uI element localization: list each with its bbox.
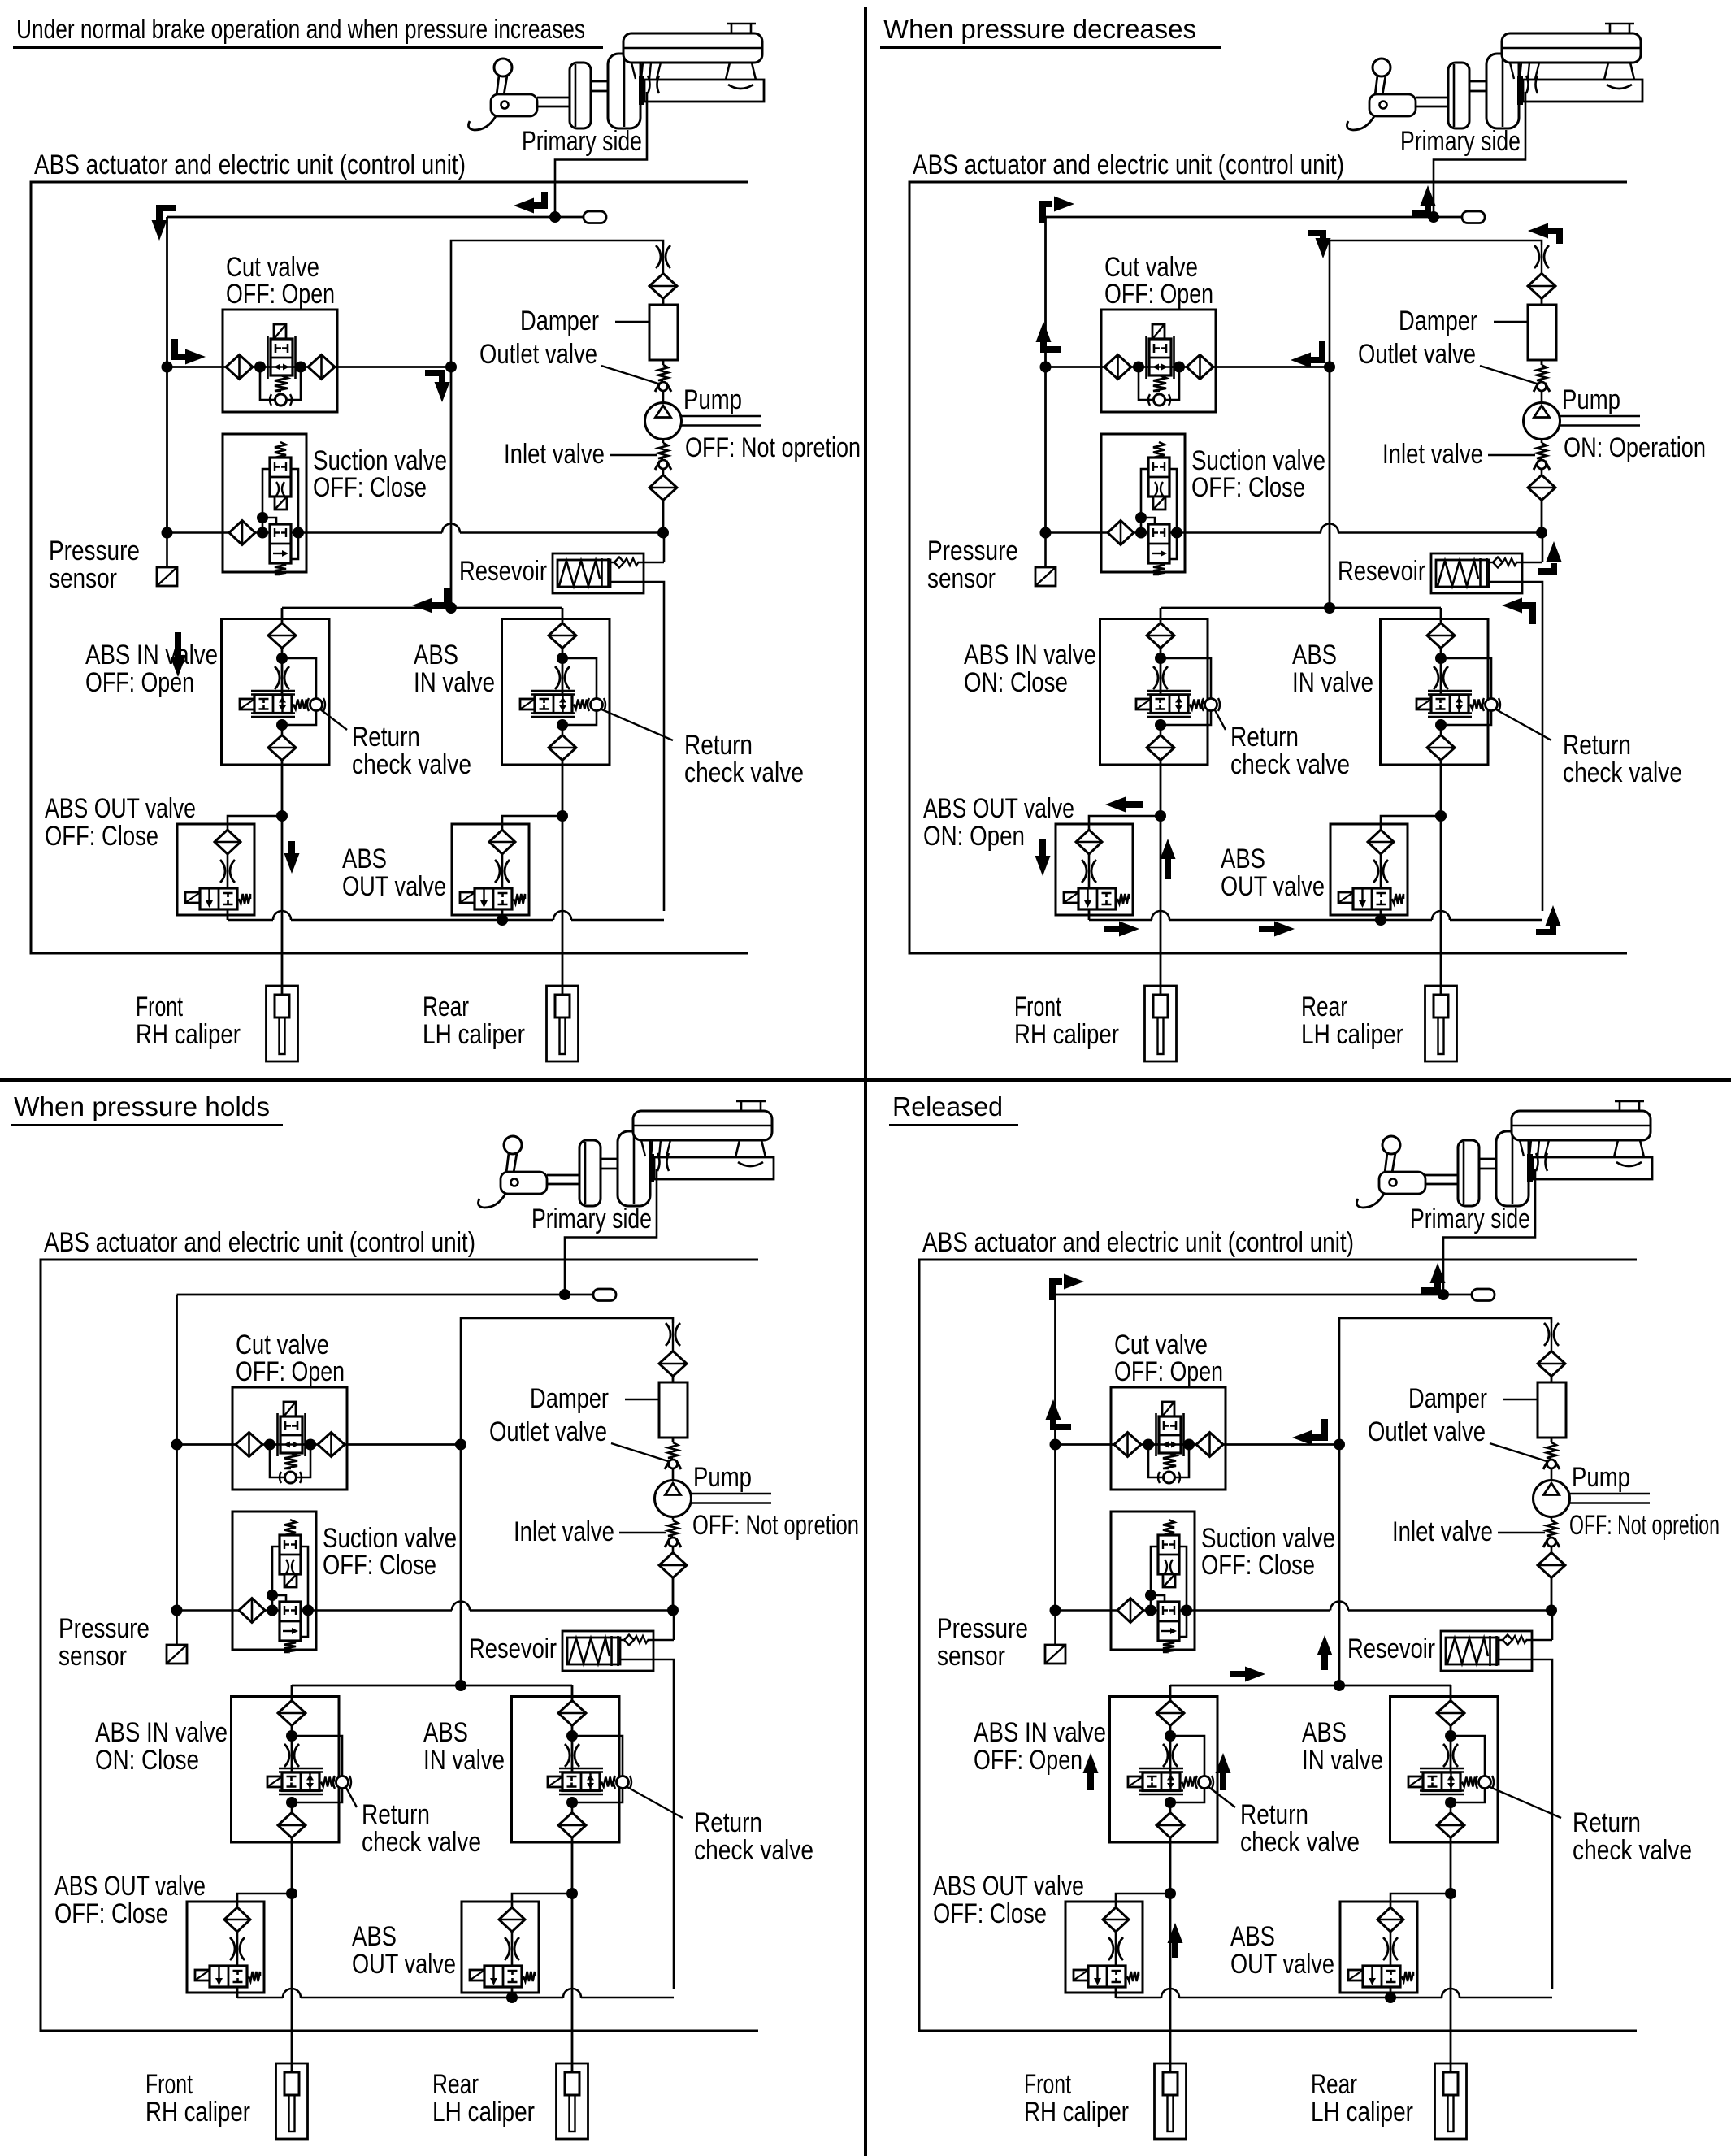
svg-text:Front: Front: [136, 991, 183, 1022]
pump outlet restrictor: [1544, 1323, 1559, 1351]
ABS OUT valve body: [484, 1966, 522, 1987]
svg-text:Rear: Rear: [423, 991, 469, 1022]
cut valve body: [278, 1413, 306, 1456]
svg-text:ON: Close: ON: Close: [964, 667, 1068, 698]
wire: [1551, 1438, 1553, 1442]
bridge: return over rear channel: [1432, 911, 1450, 920]
bridge: suction line over riser: [1321, 524, 1338, 533]
reservoir ports: [631, 63, 661, 79]
wire: ABS OUT inlet: [502, 816, 562, 830]
pump outlet filter: [1538, 1351, 1565, 1377]
brake caliper: [1155, 2063, 1187, 2139]
ABS IN valve restrictor: [1443, 1744, 1458, 1767]
svg-text:Primary side: Primary side: [531, 1204, 652, 1234]
brake pedal: [468, 59, 537, 130]
svg-text:LH caliper: LH caliper: [423, 1019, 525, 1050]
suction valve lower body: [1148, 524, 1169, 563]
flow arrow: up to master cylinder: [1421, 1282, 1438, 1291]
master cylinder body: [1523, 80, 1642, 102]
node: check valve loop bottom tap: [1165, 1797, 1176, 1808]
booster output plate: [639, 76, 644, 105]
cut valve outlet filter: [1196, 1433, 1223, 1457]
node: check valve loop bottom tap: [557, 719, 568, 731]
title: Released: [889, 1091, 1018, 1126]
pressure sensor: [157, 533, 177, 587]
wire: [281, 608, 284, 623]
svg-text:ABS OUT valve: ABS OUT valve: [933, 1871, 1084, 1902]
pump outlet filter: [1528, 274, 1555, 299]
reservoir check valve: [1499, 1635, 1552, 1646]
node: suction valve pilot tap: [1145, 1590, 1156, 1601]
node: cut valve output to riser: [455, 1439, 466, 1451]
svg-text:Return: Return: [694, 1807, 762, 1838]
svg-text:Damper: Damper: [520, 306, 599, 336]
ABS IN valve restrictor: [1163, 1744, 1178, 1767]
pump: [1534, 1469, 1651, 1517]
wire: [281, 648, 284, 695]
ABS IN valve bottom filter: [1427, 725, 1455, 761]
svg-text:LH caliper: LH caliper: [1301, 1019, 1403, 1050]
wire: [662, 360, 665, 365]
wire: ABS OUT outlet: [1115, 1987, 1117, 1998]
ABS IN valve rear (OFF: Open): [502, 619, 610, 766]
svg-text:OFF: Close: OFF: Close: [54, 1898, 168, 1929]
ABS OUT valve restrictor: [1373, 854, 1388, 888]
node: riser to ABS IN feed: [1324, 602, 1335, 614]
ABS OUT valve top filter: [1368, 830, 1394, 854]
inlet valve (spring + ball): [1534, 440, 1550, 471]
suction valve (OFF: Close): [1111, 1512, 1195, 1650]
cut valve inlet filter: [226, 355, 253, 380]
svg-text:Return: Return: [1573, 1807, 1641, 1838]
label: Suction valve OFF: Close: [313, 445, 447, 503]
node: cut valve bypass tap left: [1143, 1439, 1154, 1451]
pump inlet filter: [1538, 1547, 1565, 1578]
piston cup seals: [1536, 1153, 1538, 1171]
flow arrow: up-then-right at feed start: [1043, 204, 1052, 223]
return check valve: [292, 1736, 351, 1802]
wire: ABS OUT inlet: [1381, 816, 1441, 830]
reservoir check valve: [1489, 557, 1542, 568]
label: ABS OUT valve OFF: Close: [54, 1871, 206, 1929]
wire: [1541, 298, 1543, 305]
svg-text:check valve: check valve: [1240, 1827, 1360, 1858]
svg-text:ABS: ABS: [1302, 1717, 1347, 1748]
pressure sensor: [1035, 533, 1056, 587]
ABS IN valve bottom filter: [558, 1802, 586, 1838]
svg-text:Primary side: Primary side: [1400, 126, 1521, 157]
suction valve lower body: [280, 1602, 301, 1641]
wire: [672, 1577, 675, 1611]
flow arrow: right-then-down at riser top: [1308, 233, 1323, 240]
damper: [1538, 1382, 1566, 1438]
bridge: return over front channel: [283, 1989, 301, 1998]
ABS IN valve rear (OFF: Open): [1390, 1697, 1499, 1843]
suction valve bottom spring: [1163, 1641, 1174, 1652]
node: cut valve bypass tap right: [1174, 362, 1185, 373]
node: channel to ABS OUT branch: [1435, 810, 1447, 822]
flow arrow: left-then-up at feed start: [1043, 341, 1061, 349]
node: channel to ABS OUT branch: [1155, 810, 1166, 822]
node: suction valve pilot tap: [1135, 512, 1147, 523]
label: Return check valve (rear): [626, 1786, 813, 1866]
label: Rear LH caliper: [1311, 2069, 1413, 2128]
node: suction line to pressure sensor: [162, 527, 173, 539]
ABS IN valve restrictor: [1153, 666, 1168, 689]
label: Rear LH caliper: [1301, 991, 1403, 1050]
wire: ABS OUT outlet: [511, 1987, 514, 1998]
cut valve (OFF: Open): [1111, 1387, 1226, 1490]
wire: ABS OUT outlet: [236, 1987, 239, 1998]
svg-text:LH caliper: LH caliper: [432, 2097, 535, 2128]
node: rear ABS OUT output on return line: [506, 1992, 518, 2003]
flow arrow: down-then-left below reservoir: [1519, 605, 1533, 624]
wire: cut valve output: [1213, 366, 1330, 368]
booster connector rods: [601, 1159, 618, 1169]
label: ABS IN valve OFF: Open: [85, 640, 218, 698]
ABS IN valve body: [1420, 1768, 1464, 1794]
ABS IN valve front (OFF: Open): [1110, 1697, 1218, 1843]
ABS IN valve restrictor: [284, 1744, 299, 1767]
wire: ABS IN feed line: [1170, 1685, 1451, 1687]
flow arrow: down at ABS IN valve: [175, 632, 181, 657]
bridge: return over front channel: [1161, 1989, 1179, 1998]
damper: [1528, 305, 1556, 360]
svg-text:sensor: sensor: [937, 1641, 1005, 1672]
ABS IN valve top filter: [1437, 1701, 1464, 1726]
brake caliper: [1145, 986, 1177, 1061]
suction valve solenoid: [284, 1574, 297, 1587]
cut valve solenoid: [1162, 1402, 1174, 1416]
ABS OUT valve rear: [452, 824, 529, 915]
label: Rear LH caliper: [423, 991, 525, 1050]
ABS OUT valve restrictor: [1082, 854, 1096, 888]
svg-text:Primary side: Primary side: [522, 126, 642, 157]
node: feed to cut valve branch: [162, 362, 173, 373]
node: check valve loop top tap: [1445, 1730, 1456, 1742]
svg-text:Rear: Rear: [1311, 2069, 1357, 2100]
node: master cylinder feed junction: [1438, 1289, 1449, 1300]
pressure sensor: [1045, 1611, 1065, 1664]
label: Cut valve OFF: Open: [1104, 252, 1213, 310]
flow arrow: left into ABS OUT valve: [1120, 801, 1143, 808]
label: ABS OUT valve (rear): [1221, 844, 1325, 902]
control unit box: [41, 1260, 758, 2031]
wire: [1141, 1443, 1159, 1446]
svg-text:LH caliper: LH caliper: [1311, 2097, 1413, 2128]
label: Outlet valve: [1358, 339, 1537, 384]
svg-text:Released: Released: [892, 1091, 1003, 1121]
wire: ABS OUT outlet: [1088, 909, 1091, 920]
svg-text:check valve: check valve: [1563, 757, 1682, 788]
label: Outlet valve: [1368, 1416, 1547, 1461]
pushrod: pedal to booster: [537, 98, 570, 106]
ABS IN valve bottom filter: [1147, 725, 1174, 761]
label: ABS OUT valve (rear): [352, 1921, 456, 1980]
ABS OUT valve spring: [514, 894, 525, 904]
ABS IN valve spring: [574, 700, 587, 709]
svg-text:Front: Front: [1024, 2069, 1071, 2100]
node: suction valve line tap left: [1135, 527, 1147, 539]
booster output plate: [1517, 76, 1523, 105]
ABS OUT valve body: [200, 888, 237, 909]
pump inlet filter: [1528, 470, 1555, 501]
damper: [649, 305, 678, 360]
ABS OUT valve solenoid: [460, 892, 475, 903]
svg-text:OFF: Open: OFF: Open: [974, 1745, 1082, 1776]
svg-text:IN valve: IN valve: [414, 667, 495, 698]
brake booster diaphragm: [1486, 54, 1519, 128]
label: Front RH caliper: [145, 2069, 250, 2128]
return check valve: [572, 1736, 631, 1802]
brake booster diaphragm: [618, 1131, 650, 1206]
svg-text:Return: Return: [352, 722, 420, 753]
svg-text:Pump: Pump: [1572, 1462, 1630, 1493]
node: check valve loop top tap: [286, 1730, 297, 1742]
ABS OUT valve top filter: [1377, 1907, 1403, 1932]
piston cup seals: [648, 76, 650, 93]
suction valve inlet filter: [229, 521, 255, 545]
ABS IN valve spring: [293, 700, 306, 709]
node: cut valve bypass tap left: [254, 362, 266, 373]
svg-text:OFF: Close: OFF: Close: [1191, 472, 1305, 503]
cut valve spring: [284, 1453, 297, 1468]
svg-text:Pressure: Pressure: [937, 1613, 1028, 1644]
node: cut valve output to riser: [1334, 1439, 1345, 1451]
node: channel to ABS OUT branch: [557, 810, 568, 822]
ABS IN valve top filter: [558, 1701, 586, 1726]
wire: riser down to ABS IN feed: [450, 367, 453, 609]
node: pump suction junction: [1536, 527, 1547, 539]
inlet valve (spring + ball): [665, 1517, 681, 1548]
label: Pressure sensor: [49, 536, 140, 594]
node: channel to ABS OUT branch: [1165, 1888, 1176, 1899]
svg-text:Outlet valve: Outlet valve: [489, 1416, 607, 1447]
label: Pressure sensor: [927, 536, 1018, 594]
svg-text:OFF: Open: OFF: Open: [226, 279, 335, 310]
wire: check valve to pump suction: [1551, 1611, 1554, 1641]
wire: check valve to pump suction: [663, 533, 666, 563]
flow arrow: left-then-down at feed start: [159, 208, 176, 221]
suction valve upper body: [280, 1535, 301, 1574]
flow arrow: up right of ABS IN valve: [1220, 1769, 1226, 1790]
ABS OUT valve solenoid: [195, 1970, 210, 1980]
ABS IN valve body: [251, 691, 295, 717]
pump: [645, 392, 762, 440]
ABS IN valve spring: [1470, 700, 1483, 709]
svg-text:Return: Return: [1230, 722, 1299, 753]
suction valve pilot loop: [272, 1547, 308, 1637]
wire: [291, 1685, 293, 1701]
wire: cut valve input: [167, 366, 227, 368]
label: Outlet valve: [479, 339, 658, 384]
flow arrow: right-then-down after cut valve: [425, 373, 442, 383]
bridge: return over rear channel: [553, 911, 571, 920]
ABS IN valve front (ON: Close): [1100, 619, 1208, 766]
node: check valve loop bottom tap: [1435, 719, 1447, 731]
svg-text:IN valve: IN valve: [423, 1745, 505, 1776]
svg-text:When pressure decreases: When pressure decreases: [883, 14, 1196, 44]
node: feed to cut valve branch: [1050, 1439, 1061, 1451]
node: master cylinder feed junction: [1428, 211, 1439, 223]
node: cut valve bypass tap right: [1183, 1439, 1195, 1451]
wire: suction line: [167, 531, 664, 534]
wire: rear channel: [1450, 1837, 1452, 2072]
node: cut valve bypass tap right: [295, 362, 306, 373]
suction valve (OFF: Close): [223, 434, 306, 572]
wire: [291, 1725, 293, 1772]
wire: [253, 366, 271, 368]
wire: reservoir outlet: [1499, 1659, 1552, 1989]
cut valve inlet filter: [1114, 1433, 1141, 1457]
ABS IN valve solenoid: [1136, 699, 1151, 709]
label: ABS IN valve ON: Close: [964, 640, 1096, 698]
label: Return check valve (front): [345, 1786, 481, 1858]
suction valve pilot loop: [1141, 469, 1177, 559]
svg-text:RH caliper: RH caliper: [145, 2097, 250, 2128]
pressure sensor: [167, 1611, 187, 1664]
title: When pressure decreases: [880, 14, 1221, 48]
flow arrow: up on front channel: [1165, 858, 1171, 879]
cut valve solenoid: [274, 324, 286, 339]
label: Damper: [520, 306, 649, 336]
node: rear ABS OUT output on return line: [497, 914, 508, 926]
ABS IN valve restrictor: [1434, 666, 1448, 689]
suction valve (OFF: Close): [232, 1512, 316, 1650]
svg-text:ABS IN valve: ABS IN valve: [974, 1717, 1106, 1748]
ABS IN valve restrictor: [275, 666, 289, 689]
label: Cut valve OFF: Open: [1114, 1330, 1223, 1387]
brake fluid reservoir tank: [1512, 1101, 1651, 1140]
brake caliper: [557, 2063, 588, 2139]
label: Damper: [530, 1383, 659, 1414]
wire: cut valve input: [1046, 366, 1105, 368]
node: suction line to pressure sensor: [171, 1605, 183, 1616]
svg-text:OFF: Close: OFF: Close: [933, 1898, 1047, 1929]
suction valve upper body: [1158, 1535, 1179, 1574]
piston cup seals: [657, 1153, 660, 1171]
cut valve body: [1147, 336, 1174, 379]
node: suction valve line tap right: [302, 1605, 314, 1616]
ABS OUT valve top filter: [215, 830, 241, 854]
svg-text:OFF: Close: OFF: Close: [1201, 1550, 1315, 1581]
svg-text:Pump: Pump: [683, 384, 742, 415]
wire: ABS OUT outlet: [1380, 909, 1382, 920]
flow arrow: down-then-left at cut valve output: [1310, 1419, 1325, 1438]
ABS IN valve top filter: [549, 623, 576, 649]
svg-text:ABS: ABS: [414, 640, 458, 670]
suction valve solenoid: [1153, 497, 1165, 510]
label: ABS IN valve (rear): [1292, 640, 1373, 698]
label: Suction valve OFF: Close: [1191, 445, 1325, 503]
cylinder mount: [1604, 63, 1634, 80]
flow arrow: down left of ABS OUT: [1039, 839, 1046, 857]
pump inlet filter: [649, 470, 677, 501]
suction valve top spring: [1153, 442, 1165, 458]
ABS OUT valve spring: [1117, 894, 1129, 904]
node: cut valve bypass tap left: [264, 1439, 275, 1451]
svg-text:ABS IN valve: ABS IN valve: [964, 640, 1096, 670]
svg-text:OUT valve: OUT valve: [342, 871, 446, 902]
cut valve body: [1156, 1413, 1184, 1456]
label: Outlet valve: [489, 1416, 668, 1461]
flow arrow: down-then-right into cut valve: [175, 339, 187, 357]
ABS OUT valve body: [1088, 1966, 1126, 1987]
cylinder mount: [735, 1140, 766, 1157]
wire: [1160, 608, 1162, 623]
wire: front channel: [291, 1837, 293, 2072]
svg-text:sensor: sensor: [59, 1641, 127, 1672]
suction valve lower body: [270, 524, 291, 563]
wire: master cylinder to feed line: [565, 1169, 657, 1295]
ABS IN valve spring: [1462, 1777, 1475, 1787]
node: suction valve line tap right: [293, 527, 304, 539]
ABS OUT valve front (ON: Open): [1056, 824, 1133, 915]
brake booster small disc: [1458, 1140, 1479, 1206]
wire: return line: [1116, 1997, 1552, 1999]
wire: ABS OUT inlet: [1116, 1894, 1170, 1907]
node: riser to ABS IN feed: [455, 1680, 466, 1691]
node: check valve loop top tap: [557, 653, 568, 664]
wire: rear channel: [571, 1837, 574, 2072]
inlet valve (spring + ball): [655, 440, 671, 471]
reservoir ports: [641, 1140, 670, 1156]
brake caliper: [1425, 986, 1457, 1061]
svg-text:Resevoir: Resevoir: [1338, 556, 1425, 587]
svg-text:Return: Return: [1563, 730, 1631, 761]
svg-text:OFF: Not opretion: OFF: Not opretion: [692, 1510, 859, 1541]
cut valve spring: [1163, 1453, 1176, 1468]
brake fluid reservoir tank: [1502, 24, 1641, 63]
node: master cylinder feed junction: [559, 1289, 570, 1300]
reservoir ports: [1510, 63, 1539, 79]
svg-text:OFF: Close: OFF: Close: [323, 1550, 436, 1581]
wire: [1160, 648, 1162, 695]
svg-text:check valve: check valve: [684, 757, 804, 788]
suction valve upper body: [1148, 458, 1169, 497]
svg-text:ABS actuator and electric unit: ABS actuator and electric unit (control …: [44, 1227, 475, 1258]
wire: cut valve output: [335, 366, 451, 368]
svg-text:ON: Close: ON: Close: [95, 1745, 199, 1776]
label: ABS IN valve ON: Close: [95, 1717, 228, 1776]
cut valve outlet filter: [318, 1433, 345, 1457]
node: cut valve bypass tap left: [1133, 362, 1144, 373]
ABS IN valve solenoid: [267, 1776, 282, 1787]
node: pump suction junction: [667, 1605, 679, 1616]
wire: master cylinder to feed line: [1434, 92, 1525, 217]
cut valve inlet filter: [1104, 355, 1131, 380]
ABS IN valve body: [531, 691, 575, 717]
ABS IN valve solenoid: [520, 699, 535, 709]
wire: feed left vertical: [166, 217, 168, 533]
label: Cut valve OFF: Open: [226, 252, 335, 310]
svg-text:Return: Return: [362, 1799, 430, 1830]
ABS IN valve front (ON: Close): [232, 1697, 340, 1843]
svg-text:check valve: check valve: [694, 1835, 813, 1866]
outlet valve (spring + ball): [655, 365, 671, 392]
brake booster diaphragm: [1496, 1131, 1529, 1206]
ABS IN valve top filter: [1147, 623, 1174, 649]
ABS IN valve top filter: [278, 1701, 306, 1726]
wire: [571, 1725, 574, 1772]
wire: ABS OUT inlet: [1390, 1894, 1451, 1907]
wire: front channel: [1169, 1837, 1172, 2072]
svg-text:Return: Return: [684, 730, 753, 761]
ABS IN valve spring: [1190, 700, 1203, 709]
cut valve bypass check valve: [260, 367, 301, 406]
cut valve spring: [275, 375, 288, 391]
svg-text:Resevoir: Resevoir: [1347, 1633, 1435, 1664]
